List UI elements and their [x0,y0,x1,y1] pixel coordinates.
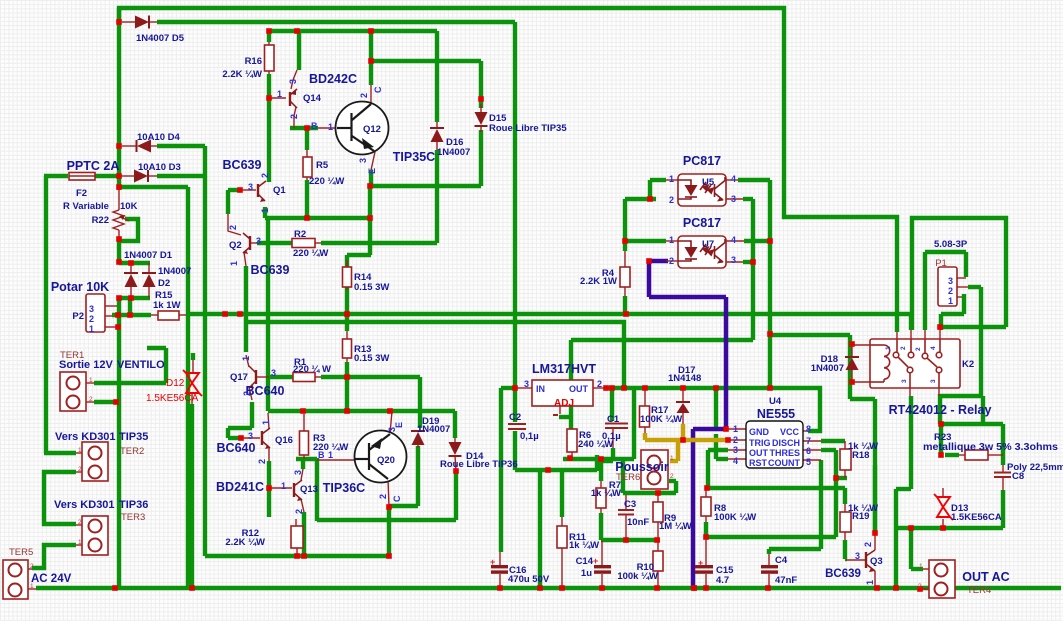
svg-text:R18: R18 [852,450,869,461]
svg-text:TER6: TER6 [616,472,640,483]
svg-text:1: 1 [281,481,286,491]
svg-text:47nF: 47nF [775,575,797,586]
svg-text:1: 1 [885,346,892,350]
svg-text:1: 1 [30,583,34,590]
svg-text:1: 1 [89,377,93,384]
svg-text:Vers KD301: Vers KD301 [54,499,115,511]
svg-text:1N4007: 1N4007 [437,147,470,158]
svg-text:1: 1 [733,424,738,434]
svg-text:U7: U7 [702,239,714,250]
svg-text:2: 2 [89,314,94,324]
svg-text:AC 24V: AC 24V [31,573,72,585]
svg-text:R19: R19 [852,511,869,522]
svg-text:BC639: BC639 [251,263,290,277]
svg-text:VENTILO: VENTILO [117,359,165,371]
svg-text:PC817: PC817 [683,154,721,168]
svg-text:1: 1 [328,122,333,132]
svg-text:+: + [698,558,703,568]
svg-text:ADJ: ADJ [554,398,574,409]
svg-text:2: 2 [242,391,252,396]
svg-text:TER5: TER5 [9,547,33,558]
svg-text:1k 1W: 1k 1W [153,300,180,311]
svg-text:1k ¼W: 1k ¼W [569,540,599,551]
svg-text:1: 1 [669,235,674,245]
svg-text:3: 3 [288,79,298,84]
svg-text:2: 2 [359,93,369,98]
svg-text:Q17: Q17 [230,372,248,383]
svg-text:3: 3 [256,236,261,246]
svg-text:100K ¼W: 100K ¼W [640,414,682,425]
svg-text:1u: 1u [581,568,592,579]
svg-text:4: 4 [731,174,736,184]
svg-text:BC639: BC639 [825,568,861,580]
svg-text:3: 3 [948,276,953,286]
svg-text:1N4148: 1N4148 [668,373,701,384]
svg-text:2: 2 [89,396,93,403]
svg-text:3: 3 [930,379,937,383]
svg-text:220 ¼W: 220 ¼W [309,176,344,187]
svg-text:2: 2 [915,347,922,351]
svg-text:0,1µ: 0,1µ [520,431,539,442]
svg-text:B: B [318,450,325,460]
svg-text:R22: R22 [92,215,109,226]
svg-text:TER2: TER2 [120,446,144,457]
svg-text:+: + [490,557,495,567]
svg-text:BD242C: BD242C [309,72,357,86]
svg-text:4: 4 [930,346,937,350]
svg-text:0.15 3W: 0.15 3W [354,282,389,293]
svg-text:3: 3 [733,445,738,455]
svg-text:1.5KE56CA: 1.5KE56CA [146,393,199,404]
svg-text:TIP35C: TIP35C [393,150,435,164]
svg-text:Roue Libre TIP35: Roue Libre TIP35 [489,123,567,134]
svg-text:7: 7 [806,436,811,446]
svg-text:3: 3 [293,470,303,475]
svg-text:P1: P1 [935,258,947,269]
svg-text:10K: 10K [120,201,138,212]
svg-text:COUNT: COUNT [768,458,800,468]
svg-text:1: 1 [89,324,94,334]
svg-text:2: 2 [670,473,674,480]
svg-text:1: 1 [670,455,674,462]
svg-text:TIP36: TIP36 [119,499,148,511]
svg-text:Q12: Q12 [363,124,381,135]
svg-text:220 ¼W: 220 ¼W [293,248,328,259]
svg-text:R16: R16 [245,56,262,67]
svg-text:0.15 3W: 0.15 3W [354,353,389,364]
svg-text:3: 3 [731,255,736,265]
svg-text:2: 2 [900,346,907,350]
svg-text:NE555: NE555 [757,407,795,421]
svg-text:R Variable: R Variable [63,201,109,212]
svg-text:PC817: PC817 [683,216,721,230]
svg-text:Roue Libre TIP36: Roue Libre TIP36 [440,459,518,470]
svg-text:8: 8 [806,424,811,434]
svg-text:2.2K ¼W: 2.2K ¼W [225,537,265,548]
svg-text:2: 2 [669,256,674,266]
svg-text:2: 2 [289,114,299,119]
svg-text:1N4007: 1N4007 [811,363,844,374]
svg-text:2: 2 [78,519,82,526]
svg-text:1M ¼W: 1M ¼W [659,521,692,532]
svg-text:470u 50V: 470u 50V [508,574,550,585]
svg-text:2: 2 [294,509,304,514]
svg-text:1N4007: 1N4007 [158,266,191,277]
svg-text:1N4007: 1N4007 [417,424,450,435]
svg-text:1: 1 [261,420,271,425]
svg-text:10A10 D3: 10A10 D3 [138,162,181,173]
svg-text:1: 1 [669,174,674,184]
svg-text:1: 1 [865,580,875,585]
svg-text:220 ¼ W: 220 ¼ W [293,364,331,375]
svg-text:6: 6 [806,446,811,456]
svg-text:3: 3 [524,379,529,389]
svg-text:metallique 3w 5% 3.3ohms: metallique 3w 5% 3.3ohms [923,442,1058,453]
svg-text:D12: D12 [166,378,185,389]
svg-text:C: C [373,86,383,93]
svg-text:4: 4 [733,456,738,466]
svg-text:Q16: Q16 [275,435,293,446]
svg-text:Q3: Q3 [870,556,883,567]
svg-text:VCC: VCC [780,427,800,437]
svg-text:1: 1 [260,208,270,213]
svg-text:2.2K ¼W: 2.2K ¼W [222,69,262,80]
svg-text:TIP36C: TIP36C [323,481,365,495]
svg-text:4: 4 [731,235,736,245]
svg-text:3: 3 [271,368,276,378]
svg-text:2: 2 [378,494,388,499]
svg-text:2: 2 [918,583,922,590]
svg-text:F2: F2 [76,188,87,199]
svg-text:Q14: Q14 [303,93,322,104]
svg-text:100K ¼W: 100K ¼W [714,512,756,523]
svg-text:Q1: Q1 [273,185,286,196]
svg-text:OUT: OUT [569,384,589,394]
svg-text:+: + [593,556,598,566]
svg-text:2: 2 [669,195,674,205]
svg-text:C4: C4 [775,555,788,566]
svg-text:R5: R5 [316,160,329,171]
svg-text:TER1: TER1 [60,350,84,361]
svg-text:B: B [311,121,318,131]
svg-text:U5: U5 [702,177,715,188]
svg-text:E: E [394,422,404,428]
svg-text:3: 3 [89,304,94,314]
svg-text:3: 3 [248,431,253,441]
svg-text:2: 2 [597,379,602,389]
svg-text:BD241C: BD241C [216,480,264,494]
svg-text:Q13: Q13 [300,484,318,495]
svg-text:100k ¼W: 100k ¼W [617,571,658,582]
svg-text:5: 5 [806,457,811,467]
svg-text:1: 1 [277,89,282,99]
svg-text:2: 2 [863,542,873,547]
svg-text:2: 2 [30,563,34,570]
svg-text:THRES: THRES [769,448,800,458]
svg-text:1N4007 D5: 1N4007 D5 [136,33,185,44]
svg-text:E: E [367,168,377,174]
svg-text:C8: C8 [1012,471,1024,482]
svg-text:1: 1 [78,447,82,454]
svg-text:PPTC 2A: PPTC 2A [67,159,120,173]
svg-text:U4: U4 [769,396,782,407]
svg-text:3: 3 [358,158,368,163]
svg-text:2.2K 1W: 2.2K 1W [580,276,617,287]
svg-text:10A10 D4: 10A10 D4 [137,132,180,143]
svg-text:1: 1 [229,261,239,266]
svg-text:1N4007 D1: 1N4007 D1 [124,250,173,261]
svg-text:2: 2 [733,435,738,445]
svg-text:4.7: 4.7 [716,575,729,586]
svg-text:240 ¼W: 240 ¼W [578,439,613,450]
svg-text:C: C [392,495,402,502]
svg-text:TER4: TER4 [967,585,991,596]
svg-text:2: 2 [257,459,267,464]
svg-text:1: 1 [948,296,953,306]
svg-text:C3: C3 [624,499,636,510]
svg-text:D2: D2 [158,278,170,289]
svg-text:1: 1 [328,450,333,460]
svg-text:3: 3 [901,379,908,383]
svg-text:TER3: TER3 [121,512,145,523]
svg-text:2: 2 [78,466,82,473]
svg-text:LM317HVT: LM317HVT [532,362,596,376]
svg-text:Vers KD301: Vers KD301 [55,431,116,443]
svg-text:1.5KE56CA: 1.5KE56CA [951,512,1002,523]
svg-text:TRIG: TRIG [749,438,771,448]
svg-text:3: 3 [731,194,736,204]
svg-text:1: 1 [78,539,82,546]
svg-text:Q20: Q20 [377,455,395,466]
svg-text:GND: GND [749,427,770,437]
svg-text:1k ¼W: 1k ¼W [591,488,621,499]
svg-text:Potar 10K: Potar 10K [51,280,109,294]
svg-text:RST: RST [749,458,768,468]
svg-text:2: 2 [228,225,238,230]
svg-text:R2: R2 [294,229,306,240]
svg-text:10nF: 10nF [627,517,649,528]
svg-text:2: 2 [948,286,953,296]
svg-text:IN: IN [536,384,545,394]
svg-text:C1: C1 [607,414,620,425]
svg-text:5.08-3P: 5.08-3P [934,239,968,250]
svg-text:1: 1 [919,563,923,570]
svg-text:1: 1 [241,356,251,361]
svg-text:Q2: Q2 [229,240,242,251]
svg-text:TIP35: TIP35 [119,431,148,443]
svg-text:OUT AC: OUT AC [962,570,1009,584]
svg-text:BC639: BC639 [223,158,262,172]
svg-text:OUT: OUT [749,448,769,458]
svg-text:BC640: BC640 [217,441,256,455]
svg-text:K2: K2 [962,359,974,370]
svg-text:3: 3 [248,182,253,192]
svg-text:DISCH: DISCH [772,438,800,448]
svg-text:P2: P2 [72,311,84,322]
svg-text:RT424012 - Relay: RT424012 - Relay [889,403,992,417]
svg-text:C14: C14 [576,556,594,567]
svg-text:2: 2 [260,173,270,178]
svg-text:C2: C2 [509,412,521,423]
svg-text:3: 3 [855,551,860,561]
